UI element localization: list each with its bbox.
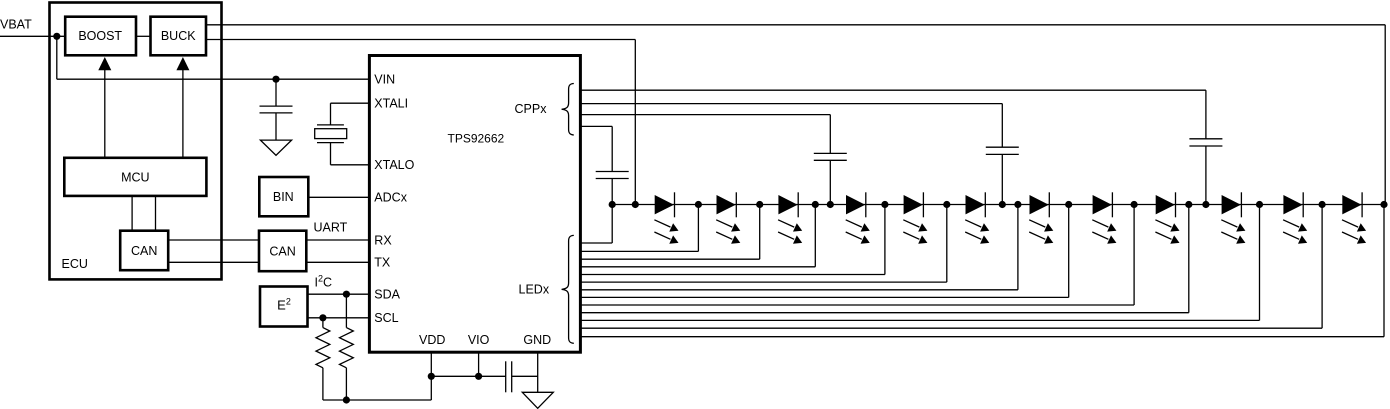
wire BIN to ADCx	[309, 196, 369, 198]
wire LEDx pin 5 return	[884, 205, 886, 275]
svg-text:UART: UART	[314, 221, 348, 235]
node rail junction 7	[881, 201, 888, 208]
wire CPPx pin 4	[580, 125, 612, 127]
block E2 eeprom	[260, 287, 308, 327]
svg-text:BUCK: BUCK	[161, 29, 196, 43]
resistor R1 on SCL	[322, 318, 324, 328]
wire CPPx pin 1	[580, 89, 1206, 91]
wire VBAT down	[56, 36, 58, 79]
capacitor C VDD	[505, 361, 507, 392]
node rail junction 4	[756, 201, 763, 208]
wire MCU to BOOST with arrow	[104, 68, 106, 158]
svg-text:ECU: ECU	[62, 257, 88, 271]
node rail junction 13	[1185, 201, 1192, 208]
node rail junction 1	[609, 201, 616, 208]
wire LEDx pin 13 return	[1383, 205, 1385, 337]
capacitor C4 charge pump	[596, 171, 629, 173]
node R2 bottom junction	[343, 396, 350, 403]
svg-text:RX: RX	[374, 233, 392, 247]
svg-text:BIN: BIN	[273, 190, 294, 204]
MCU block	[64, 158, 206, 196]
wire CAN to RX	[306, 239, 369, 241]
wire resistors to VDD	[323, 399, 431, 401]
crystal Y1	[317, 124, 344, 126]
wire VBAT input	[0, 35, 65, 37]
regulator BOOST	[65, 17, 136, 56]
wire CAN to CAN TX	[168, 261, 259, 263]
wire VIO to cap	[479, 375, 506, 377]
wire LEDx pin 10 return	[1188, 205, 1190, 313]
LED D8	[1093, 195, 1112, 214]
wire C4 to LED rail	[611, 179, 613, 205]
block CAN external	[259, 231, 306, 272]
wire LEDx pin 8 return	[1068, 205, 1070, 298]
wire BUCK output 2	[206, 39, 635, 41]
wire C3 to LED rail	[829, 160, 831, 204]
node rail junction 12	[1131, 201, 1138, 208]
svg-text:SDA: SDA	[374, 288, 400, 302]
wire E2 to SCL	[308, 317, 370, 319]
wire MCU to BUCK with arrow	[182, 68, 184, 158]
wire LEDx pin 11 return	[1259, 205, 1261, 321]
wire E2 to SDA	[308, 293, 370, 295]
wire BOOST to BUCK	[136, 35, 151, 37]
svg-text:VDD: VDD	[419, 333, 445, 347]
node SCL pullup junction	[319, 314, 326, 321]
CAN block in ECU	[120, 231, 168, 271]
ground at GND pin	[522, 392, 553, 408]
wire VBAT to VIN	[57, 78, 370, 80]
wire LEDx pin 12 return	[1321, 205, 1323, 329]
node rail junction 6	[827, 201, 834, 208]
CPPx brace	[562, 84, 574, 136]
node rail junction 2	[632, 201, 639, 208]
LED D6	[966, 195, 985, 214]
wire LEDx pin 4 return	[814, 205, 816, 267]
pin VIO wire	[478, 352, 480, 376]
svg-text:LEDx: LEDx	[519, 283, 550, 297]
wire XTALO	[330, 143, 332, 165]
wire BUCK output top rail	[206, 24, 1385, 26]
LED D3	[778, 195, 797, 214]
node rail junction 17	[1380, 201, 1387, 208]
svg-text:E2: E2	[277, 296, 291, 312]
capacitor C1 charge pump	[1189, 138, 1222, 140]
wire C2 to LED rail	[1001, 154, 1003, 204]
ECU block outline	[50, 3, 222, 280]
svg-text:VIN: VIN	[374, 73, 395, 87]
wire CPPx pin 2	[580, 103, 1002, 105]
wire LEDx pin 6 return	[946, 205, 948, 283]
wire MCU to CAN right	[155, 196, 157, 231]
capacitor C2 charge pump	[986, 146, 1019, 148]
resistor R2 on SDA	[345, 294, 347, 327]
LED D5	[904, 195, 923, 214]
node VDD junction	[428, 373, 435, 380]
wire CAN to TX	[306, 261, 369, 263]
wire LEDx pin 7 return	[1017, 205, 1019, 290]
LEDx brace	[562, 235, 574, 343]
svg-text:CAN: CAN	[131, 244, 157, 258]
LED D12	[1342, 195, 1361, 214]
svg-text:BOOST: BOOST	[78, 29, 122, 43]
svg-text:SCL: SCL	[374, 311, 398, 325]
wire top rail drop right end	[1384, 25, 1386, 205]
wire LEDx pin 3 return	[759, 205, 761, 260]
capacitor C3 charge pump	[814, 152, 847, 154]
block BIN	[259, 177, 308, 216]
svg-text:TPS92662: TPS92662	[448, 131, 505, 145]
LED D7	[1030, 195, 1049, 214]
node VIO junction	[475, 373, 482, 380]
capacitor at VIN	[275, 79, 277, 106]
LED D1	[655, 195, 674, 214]
regulator BUCK	[151, 17, 207, 56]
svg-text:TX: TX	[374, 256, 391, 270]
svg-text:GND: GND	[523, 333, 551, 347]
LED D9	[1156, 195, 1175, 214]
wire cap to GND	[512, 375, 538, 377]
wire CAN to CAN RX	[168, 239, 259, 241]
wire LEDx pin 1 return	[611, 205, 613, 244]
node rail junction 10	[1014, 201, 1021, 208]
node SDA pullup junction	[343, 291, 350, 298]
node rail junction 5	[812, 201, 819, 208]
wire CPPx pin 3	[580, 114, 830, 116]
svg-text:CAN: CAN	[269, 245, 295, 259]
wire LEDx pin 2 return	[697, 205, 699, 252]
svg-text:VBAT: VBAT	[0, 18, 32, 32]
wire VDD to VIO	[431, 375, 478, 377]
ground below VIN cap	[260, 140, 291, 155]
svg-text:ADCx: ADCx	[374, 191, 407, 205]
wire LED anode rail	[612, 204, 1385, 206]
LED D11	[1283, 195, 1302, 214]
LED D10	[1222, 195, 1241, 214]
svg-text:VIO: VIO	[468, 333, 490, 347]
LED D2	[717, 195, 736, 214]
node rail junction 15	[1256, 201, 1263, 208]
node VIN cap junction	[272, 76, 279, 83]
node rail junction 11	[1065, 201, 1072, 208]
wire MCU to CAN left	[131, 196, 133, 231]
svg-text:MCU: MCU	[121, 170, 149, 184]
wire XTALI	[331, 102, 370, 104]
LED D4	[846, 195, 865, 214]
svg-text:XTALO: XTALO	[374, 158, 414, 172]
svg-text:I2C: I2C	[315, 274, 333, 290]
IC U1 TPS92662 outline	[369, 56, 580, 353]
svg-text:CPPx: CPPx	[515, 102, 548, 116]
node rail junction 8	[943, 201, 950, 208]
node rail junction 3	[695, 201, 702, 208]
pin GND wire	[537, 352, 539, 392]
node rail junction 16	[1319, 201, 1326, 208]
pin VDD wire	[430, 352, 432, 376]
wire C1 to LED rail	[1205, 146, 1207, 205]
wire LEDx pin 9 return	[1133, 205, 1135, 306]
node VBAT junction	[53, 33, 60, 40]
node rail junction 9	[999, 201, 1006, 208]
node rail junction 14	[1202, 201, 1209, 208]
svg-text:XTALI: XTALI	[374, 97, 408, 111]
wire LED string supply drop	[634, 40, 636, 205]
